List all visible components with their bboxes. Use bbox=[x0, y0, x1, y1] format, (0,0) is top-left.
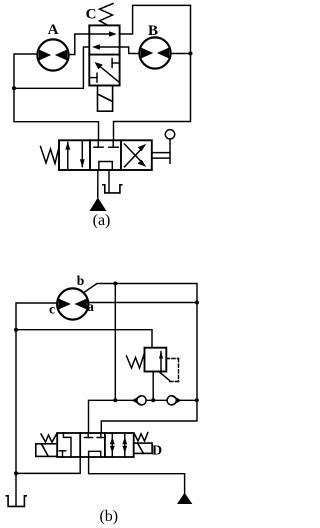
node relief at check line bbox=[151, 398, 155, 402]
relief valve body bbox=[145, 348, 167, 372]
node B right junction bbox=[189, 52, 193, 56]
motor B bbox=[139, 37, 170, 68]
wire left rail to valve C lower-left port bbox=[14, 47, 89, 88]
node a meets rail bbox=[195, 301, 199, 305]
wire b diagonal to top line and right rail down to valve B port bbox=[84, 284, 198, 434]
node rail relief return bbox=[14, 328, 18, 332]
pressure source triangle (b) bbox=[177, 493, 192, 504]
pressure source triangle (a) bbox=[90, 198, 107, 212]
check line bbox=[89, 400, 137, 433]
node check line right bbox=[195, 398, 199, 402]
directional valve (b) body bbox=[57, 433, 134, 457]
valve (b) box2 blocked port stubs bbox=[85, 433, 106, 438]
wire vertical from b junction down to check line bbox=[114, 284, 116, 401]
valve (b) spring left bbox=[41, 434, 57, 443]
svg-text:b: b bbox=[77, 273, 85, 288]
wire motor B right to rail bbox=[171, 53, 191, 55]
wire c to left rail down to tank bbox=[16, 303, 57, 505]
valve (b) spring right bbox=[134, 433, 148, 442]
relief valve spring bbox=[127, 354, 145, 368]
valve (b) box3 double arrow 2 bbox=[122, 433, 127, 457]
check line right segment bbox=[176, 399, 197, 401]
svg-text:B: B bbox=[148, 23, 158, 39]
motor A bbox=[37, 39, 68, 70]
valve (a) box2 P-T bridge bbox=[99, 162, 112, 171]
valve C spring bbox=[100, 4, 114, 26]
tank (a) bbox=[103, 185, 122, 193]
valve (b) box3 double arrow 1 bbox=[110, 433, 115, 457]
valve C position 1 flow arrows bbox=[89, 31, 119, 50]
wire valve (a) T port down bbox=[108, 170, 110, 192]
node left rail junction bbox=[12, 86, 16, 90]
valve (b) solenoid left bbox=[36, 444, 57, 457]
relief valve pilot dashed line bbox=[166, 359, 178, 382]
valve (a) manual knob right bbox=[152, 130, 175, 164]
svg-text:(b): (b) bbox=[99, 508, 118, 525]
valve (b) solenoid right bbox=[134, 443, 152, 453]
node vertical at check line bbox=[113, 398, 117, 402]
directional valve (a) body bbox=[59, 140, 152, 170]
check valve 2 bbox=[167, 396, 180, 405]
valve (a) box1 up arrow bbox=[65, 141, 70, 169]
valve (a) spring left bbox=[41, 146, 60, 163]
wire relief return line bbox=[16, 330, 152, 348]
node b-line junction bbox=[113, 282, 117, 286]
svg-text:(a): (a) bbox=[93, 212, 111, 229]
valve (b) box2 P-T bridge bbox=[89, 451, 101, 457]
check valve 1 bbox=[133, 396, 146, 405]
valve (a) box1 down arrow bbox=[80, 141, 85, 168]
svg-text:C: C bbox=[86, 7, 97, 23]
valve C body bbox=[89, 25, 119, 85]
wire valve C second line to motor B left bbox=[120, 47, 140, 54]
valve C pilot box bbox=[98, 86, 113, 112]
valve (a) box2 blocked port stubs bbox=[94, 140, 118, 147]
valve C position 2 blocked port left bbox=[89, 73, 97, 82]
motor b bbox=[57, 288, 88, 319]
relief valve bottom wire bbox=[152, 372, 154, 401]
svg-text:a: a bbox=[87, 299, 94, 314]
relief valve arrow bbox=[159, 351, 163, 372]
wire motor A right to valve C top port bbox=[69, 34, 90, 55]
wire valve C top line over to right rail and down to valve B-port bbox=[114, 5, 191, 140]
valve (b) box1 bent path bbox=[63, 433, 71, 457]
valve C position 2 blocked port right bbox=[112, 59, 120, 68]
tank (b) bbox=[6, 496, 26, 507]
relief valve pilot diagonal bbox=[159, 371, 170, 380]
wire a to right rail bbox=[88, 302, 197, 304]
valve C position 2 diagonal arrow bbox=[95, 62, 119, 82]
check line middle segment bbox=[146, 399, 167, 401]
wire valve (b) T port to left rail bbox=[16, 457, 80, 473]
valve (b) box1 blocked port bbox=[59, 451, 65, 457]
svg-text:c: c bbox=[49, 302, 55, 317]
node T at rail bbox=[14, 471, 18, 475]
svg-text:A: A bbox=[48, 22, 59, 38]
wire valve (b) P port to pressure source bbox=[89, 457, 185, 493]
svg-text:D: D bbox=[152, 444, 162, 459]
wire A-left to left rail and down to valve P-A line bbox=[14, 54, 99, 140]
valve (a) box3 crossed arrows bbox=[125, 144, 147, 167]
wire valve (a) P port down bbox=[97, 170, 99, 198]
